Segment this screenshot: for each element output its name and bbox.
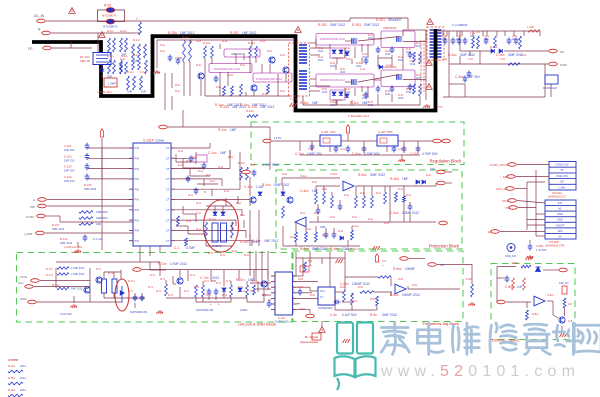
resistor R802 [563,298,566,308]
regulator U202 [377,135,398,146]
wire [227,72,229,86]
resistor R206 [255,46,258,58]
watermark character 维 [452,323,479,354]
svg-text:R-2x: R-2x [222,40,228,43]
wire [311,141,313,151]
svg-text:R-6x: R-6x [298,278,304,281]
svg-text:2012: 2012 [330,104,336,107]
svg-text:2012: 2012 [410,63,416,66]
ground regulation [398,158,405,162]
wire [296,257,345,259]
wire [237,196,239,204]
wire [241,210,243,216]
wire [539,31,541,36]
svg-text:EN: EN [488,230,492,234]
wire [142,269,176,271]
svg-text:R-1x: R-1x [236,202,242,205]
svg-text:R-6x: R-6x [398,278,404,281]
svg-text:C-3xx: C-3xx [496,53,505,57]
fuse F101 loop [98,10,125,22]
connector F_ADJ [306,314,315,318]
svg-text:PMSS8050(CMP-2012): PMSS8050(CMP-2012) [214,68,240,71]
svg-text:1MF 2012: 1MF 2012 [252,103,267,107]
wire [331,192,333,196]
svg-text:R-7x: R-7x [150,274,156,277]
wire [408,288,460,290]
diode D702 [238,288,242,291]
svg-text:R-4x: R-4x [398,188,404,191]
resistor R130 [120,62,123,74]
resistor R204 [211,46,214,58]
capacitor C703 [207,289,212,296]
svg-text:R-4x: R-4x [300,212,306,215]
svg-text:CN-802: CN-802 [549,240,559,244]
wire [166,297,247,299]
svg-text:Q-8: Q-8 [568,320,573,323]
svg-text:C-3x: C-3x [500,58,506,61]
bus wire [267,251,269,290]
capacitor C102 [85,153,90,160]
U101 left pin 7 [129,209,133,211]
wire [195,152,197,164]
svg-text:TaJPS (2/3): TaJPS (2/3) [275,320,289,324]
warning triangle box1 [426,60,432,66]
svg-text:U-201 7812: U-201 7812 [321,130,336,134]
svg-text:CT: CT [166,218,170,222]
wire [345,276,378,278]
mount hole M3 [507,244,515,252]
wire [335,64,337,70]
ground inverter [423,104,430,108]
bleeder resistor R116 [144,44,147,58]
wire [243,53,245,60]
U101 left pin 8 [129,219,133,221]
svg-text:CONN 3.3V: CONN 3.3V [555,164,569,167]
CN801 row 2 [549,167,576,173]
wire [175,147,210,149]
wire [283,245,360,247]
svg-text:R-1x: R-1x [196,228,202,231]
wire [295,222,297,226]
svg-text:HV: HV [560,50,564,54]
connector GND_IN [28,300,37,304]
resistor R208 [240,84,243,96]
T302 winding bar [437,56,442,58]
wire [297,308,311,310]
CN801 row 5 [549,184,576,190]
primary dashed link2 [423,40,425,92]
transistor Q706 [177,278,183,284]
svg-text:R-2x: R-2x [280,54,286,57]
svg-text:777: 777 [438,105,443,109]
wire [526,302,528,308]
wire [536,235,545,237]
svg-text:1MF 25V: 1MF 25V [64,148,75,152]
svg-text:2012: 2012 [406,91,412,94]
transistor Q203 [251,85,257,91]
wire [335,100,337,105]
wire [223,270,225,286]
connector ON_OFF [508,199,517,203]
wire [238,270,240,281]
resistor R407 [384,192,387,204]
wire [179,287,181,298]
CN801 row 3 [549,173,576,179]
wire [249,58,251,73]
wire [183,62,185,96]
capacitor C315 [457,38,462,45]
svg-text:R-7xx: R-7xx [236,278,245,282]
connector VCC_FB [159,125,168,129]
connector BL_ON [31,279,40,283]
transistor Q701 [96,277,102,283]
capacitor C201 [168,55,173,62]
wire to inverter [350,17,408,19]
wire [175,168,230,170]
resistor R301 [419,52,422,64]
svg-text:(SMAW250-07P): (SMAW250-07P) [545,244,565,248]
svg-text:2012: 2012 [340,71,346,74]
wire [250,282,271,284]
U601 left pin 5 [271,297,275,299]
T302 winding bar [430,44,435,46]
svg-text:C-2x: C-2x [308,148,314,151]
component box U603 [300,266,309,272]
svg-text:1uF: 1uF [517,285,523,289]
resistor R108 [79,211,93,214]
svg-text:1MF: 1MF [402,177,408,181]
wire [204,191,206,193]
T201 winding bar [299,73,307,75]
U601 left pin 6 [271,303,275,305]
svg-text:2012: 2012 [398,97,404,100]
svg-text:DIM_AN: DIM_AN [496,187,507,191]
svg-text:R-7x: R-7x [96,268,102,271]
svg-text:R-2x: R-2x [196,64,202,67]
wire [245,230,247,238]
thermistor R101 [106,8,114,13]
U101 left pin 1 [129,147,133,149]
svg-text:1MF 2012: 1MF 2012 [71,288,83,291]
svg-text:+: + [210,302,212,306]
wire [435,183,437,186]
resistor R805 [523,278,526,290]
capacitor C701 [133,295,138,302]
wire [403,41,426,43]
wire [351,226,353,230]
wire [358,75,399,83]
bleeder resistor R111 [113,38,116,52]
svg-text:4.7MF: 4.7MF [186,246,195,250]
wire [202,297,204,302]
wire [518,207,536,209]
wire [358,37,399,42]
wire [361,86,363,92]
wire [195,214,197,222]
svg-text:C-1 1uF: C-1 1uF [93,237,103,241]
svg-text:C-101: C-101 [64,144,72,148]
svg-text:R-1x: R-1x [188,194,194,197]
resistor R701 [57,267,69,270]
svg-text:FG: FG [28,47,33,51]
wire [211,58,213,64]
connector I_DIM [36,231,45,235]
bus wire [526,182,528,230]
wire [101,75,103,79]
wire [391,55,393,67]
optocoupler box [312,333,321,340]
connector DIM_O [559,268,568,272]
U101 right pin 14 [171,178,175,180]
wire [302,258,304,276]
resistor R312 [472,37,475,48]
wire [316,185,340,187]
svg-text:I_DIM: I_DIM [24,232,33,236]
svg-text:R-2x: R-2x [160,44,166,47]
watermark character 网 [574,325,600,352]
wire [354,88,356,96]
svg-text:xxxx: xxxx [386,64,392,67]
op-amp U801 [534,296,545,306]
svg-text:R-1x: R-1x [232,250,238,253]
svg-text:R-4x: R-4x [406,194,412,197]
svg-text:PIN: PIN [135,218,139,222]
resistor R303b [413,52,416,62]
wire [363,141,365,153]
svg-text:2012: 2012 [318,50,324,53]
vcc feed wire [168,126,270,128]
wire [196,301,231,303]
connector REG_IN [263,139,272,143]
svg-text:R-1xx: R-1xx [218,128,227,132]
wire [377,94,379,105]
resistor R710 [246,285,249,297]
svg-text:TaJPS(2003): TaJPS(2003) [318,307,333,310]
ground mid [468,302,475,306]
svg-text:C-2x: C-2x [398,148,404,151]
U601 left pin 3 [271,286,275,288]
wire [401,155,403,158]
resistor R408 [282,206,285,218]
wire [175,229,246,231]
wire [332,99,343,101]
wire [480,63,548,65]
wire [175,157,196,159]
wire [367,86,369,98]
diode D307 [345,94,349,97]
wire [182,110,184,127]
wire [323,186,325,192]
wire [527,181,545,183]
wire [361,44,363,52]
watermark character 电 [417,323,443,354]
svg-text:PIN: PIN [135,208,139,212]
svg-text:C-3x: C-3x [442,35,448,38]
U101 right pin 16 [171,199,175,201]
svg-text:R-4x: R-4x [312,181,318,184]
wire [176,225,188,227]
svg-text:R-9xx: R-9xx [8,364,16,368]
svg-text:1MF: 1MF [442,39,447,41]
wire [203,179,205,186]
resistor R201 [183,40,186,62]
component box Q704 [112,279,117,293]
capacitor C121 [202,163,207,170]
svg-text:R-7x: R-7x [206,294,212,297]
wire [183,167,204,169]
VCC flag left [100,129,103,137]
svg-text:R-1x: R-1x [218,166,224,169]
U101 right pin 17 [171,209,175,211]
U101 right pin 19 [171,229,175,231]
wire [171,96,173,110]
wire [175,178,222,180]
svg-text:PIN: PIN [135,229,139,233]
svg-text:R-2xx: R-2xx [182,35,190,39]
svg-text:C-104: C-104 [64,175,72,179]
U101 right pin 20 [171,240,175,242]
cap branch wire [88,168,133,170]
resistor R125 [177,216,180,226]
svg-text:R-7x: R-7x [184,290,190,293]
svg-text:CT: CT [166,208,170,212]
bus wire [261,251,263,286]
wire [175,154,177,162]
wire [263,295,265,302]
output rail [437,30,540,32]
capacitor C314 [443,38,448,45]
svg-text:1MF 2012: 1MF 2012 [242,31,257,35]
T302 winding bar [430,41,435,43]
CN801 row 4 [549,179,576,185]
wire [73,296,75,303]
svg-text:R-7xx: R-7xx [46,267,54,271]
svg-text:A: A [33,198,35,202]
transistor Q801 [559,317,565,323]
wire [299,141,301,151]
svg-text:U-202 7805: U-202 7805 [378,130,393,134]
connector REG_OUT2 [442,139,451,143]
svg-text:R-7xx: R-7xx [128,279,135,283]
svg-text:1MF: 1MF [312,101,318,105]
svg-text:C-4xx: C-4xx [300,189,309,193]
svg-text:R-1x: R-1x [196,202,202,205]
wire [459,31,461,51]
svg-text:0.1uF 50V: 0.1uF 50V [60,312,72,316]
wire [175,240,252,242]
wire [351,60,353,64]
wire tick [446,31,448,36]
svg-text:C-2xx: C-2xx [410,152,419,156]
svg-text:C-3xx: C-3xx [448,53,457,57]
diode D304 [339,92,343,95]
package PM bottom [316,74,374,87]
resistor R801 [521,265,531,268]
svg-text:R-1x: R-1x [206,174,212,177]
U101 left pin 3 [129,168,133,170]
svg-text:T-301: T-301 [290,97,298,101]
svg-text:R-6x: R-6x [310,294,316,297]
wire [104,271,121,273]
svg-text:1MF: 1MF [127,90,133,94]
wire [517,201,545,204]
svg-text:R-2x: R-2x [160,50,166,53]
wire [282,177,340,179]
ground snd2 [156,310,163,314]
svg-text:NTC08D-9: NTC08D-9 [102,14,117,18]
resistor R120 [247,115,258,118]
wire [164,96,166,110]
ground T201 [290,103,298,107]
svg-text:R-4x: R-4x [322,234,328,237]
wire [251,40,253,46]
wire [310,54,320,56]
svg-text:24V: 24V [558,202,563,205]
svg-text:R-4xx: R-4xx [240,240,249,244]
wire [189,62,191,96]
wire [334,296,336,302]
wire [134,303,136,308]
capacitor C306 [408,84,413,91]
wire [536,213,545,215]
wire [77,242,79,248]
svg-text:2012: 2012 [20,364,26,368]
T201 winding bar [299,56,307,58]
U101 left pin 10 [129,240,133,242]
wire [230,297,232,302]
resistor R703 [57,287,69,290]
svg-text:2012: 2012 [398,59,404,62]
resistor R103 [139,22,142,35]
main transformer T302 outline [427,27,444,60]
svg-text:R-207: R-207 [230,31,239,35]
wire [46,215,60,217]
wire [345,81,351,83]
wire [40,280,90,282]
spare resistor 3 [8,394,23,397]
svg-text:CT: CT [166,167,170,171]
drive rail [157,39,295,41]
wire [200,80,202,96]
small box U101 aux [196,155,207,162]
svg-text:2012: 2012 [385,53,391,56]
mosfet Q304 [352,79,358,85]
primary dashed link [420,40,422,92]
svg-text:R-1x: R-1x [196,212,202,215]
wire [336,100,338,105]
transistor Q702 [84,287,90,293]
svg-text:C-3xx: C-3xx [455,75,464,79]
wire [190,175,210,177]
mosfet package Q302 [381,70,415,87]
watermark character 修 [490,323,516,352]
wire to filter [97,33,99,52]
svg-text:R-1xx: R-1xx [215,103,224,107]
svg-text:R-2x: R-2x [240,64,246,67]
svg-text:R-303: R-303 [352,23,361,27]
svg-text:SMF-05: SMF-05 [80,59,90,63]
diode D404 [340,236,343,240]
wire [257,281,259,292]
svg-text:C-1xx: C-1xx [208,151,217,155]
diode D101 [213,212,217,215]
resistor R413 [395,192,398,202]
capacitor C405 [408,204,413,211]
svg-text:R-7x: R-7x [216,282,222,285]
ground top dim [526,256,534,260]
wire [285,74,287,82]
svg-text:R-120: R-120 [246,109,254,113]
